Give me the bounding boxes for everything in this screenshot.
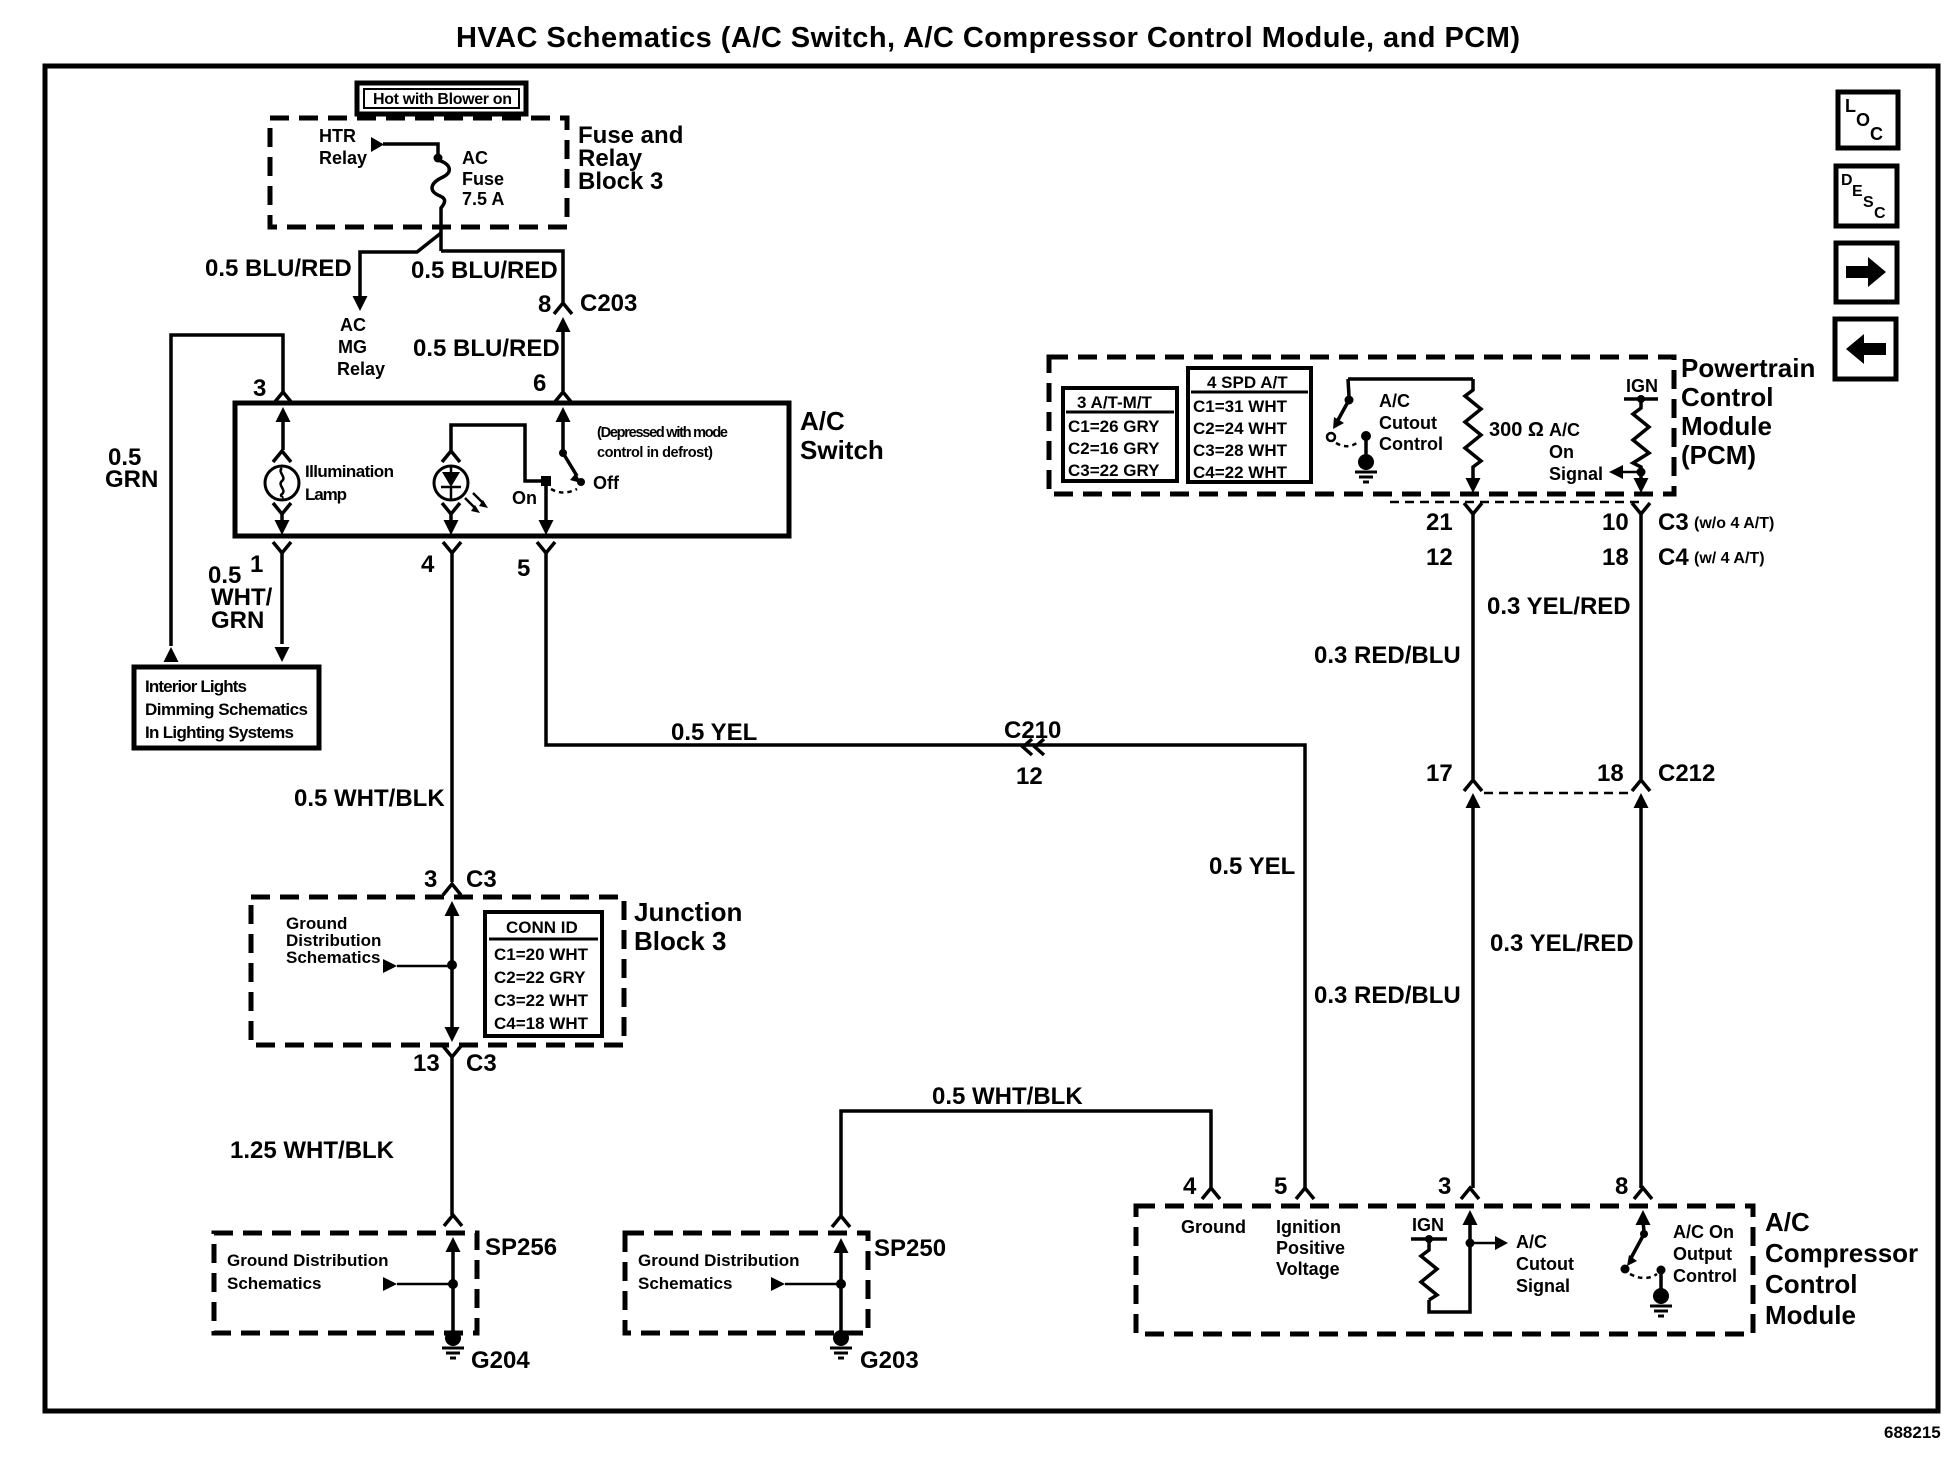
wire: 0.3 RED/BLU PCM to C212 xyxy=(1471,514,1475,779)
svg-text:L: L xyxy=(1845,96,1856,116)
SP250 internal wire xyxy=(834,1238,849,1332)
label: Ignition Positive Voltage xyxy=(1276,1217,1345,1279)
connector: pin 5 of A/C switch xyxy=(517,542,555,582)
connector: compressor module pin 3 xyxy=(1438,1173,1479,1200)
svg-text:A/C: A/C xyxy=(1516,1232,1547,1252)
svg-text:C212: C212 xyxy=(1658,760,1715,787)
svg-text:0.5 BLU/RED: 0.5 BLU/RED xyxy=(411,257,558,284)
svg-text:C2=22 GRY: C2=22 GRY xyxy=(494,968,586,987)
dashed travel arc On-Off xyxy=(551,489,577,493)
wire: fuse output below block xyxy=(439,228,443,251)
label: A/C Cutout Control xyxy=(1379,391,1443,454)
svg-text:On: On xyxy=(512,488,537,508)
svg-text:17: 17 xyxy=(1426,760,1453,787)
svg-text:0.5 BLU/RED: 0.5 BLU/RED xyxy=(205,255,352,282)
svg-text:7.5 A: 7.5 A xyxy=(462,189,504,209)
pin 3 internal wire xyxy=(1429,1210,1478,1312)
connector C212 right (pin 18) xyxy=(1597,760,1715,808)
svg-text:Block 3: Block 3 xyxy=(578,168,663,195)
svg-text:Illumination: Illumination xyxy=(305,462,394,481)
svg-text:C2=24 WHT: C2=24 WHT xyxy=(1193,419,1288,438)
svg-text:(Depressed with mode: (Depressed with mode xyxy=(597,425,728,441)
svg-text:Schematics: Schematics xyxy=(227,1274,322,1293)
svg-text:8: 8 xyxy=(538,291,551,318)
wire: 0.5 WHT/BLK down to junction block xyxy=(450,553,454,882)
pin 3 internal wire to lamp xyxy=(273,407,291,462)
arrow: A/C Cutout Signal xyxy=(1470,1236,1508,1250)
svg-text:C1=20 WHT: C1=20 WHT xyxy=(494,945,589,964)
svg-text:Block 3: Block 3 xyxy=(634,926,727,956)
svg-text:C3=22 GRY: C3=22 GRY xyxy=(1068,461,1160,480)
note: Depressed with mode control in defrost xyxy=(597,425,728,461)
relay label: HTR Relay xyxy=(319,126,367,168)
PCM dashed box xyxy=(1049,357,1674,494)
svg-text:Relay: Relay xyxy=(319,148,367,168)
svg-text:C4=22 WHT: C4=22 WHT xyxy=(1193,463,1288,482)
svg-text:A/C: A/C xyxy=(800,406,845,436)
svg-text:688215: 688215 xyxy=(1884,1423,1941,1442)
svg-text:0.3 YEL/RED: 0.3 YEL/RED xyxy=(1490,930,1634,957)
lamp: Illumination Lamp xyxy=(265,466,299,500)
label: A/C On Signal xyxy=(1549,420,1603,484)
connector: pin 3 of A/C switch xyxy=(253,375,292,403)
label: A/C On Output Control xyxy=(1673,1222,1737,1286)
connector: compressor module pin 8 xyxy=(1615,1173,1652,1200)
svg-text:A/C On: A/C On xyxy=(1673,1222,1734,1242)
connector: 13 C3 xyxy=(413,1046,497,1077)
svg-text:12: 12 xyxy=(1426,544,1453,571)
svg-text:Module: Module xyxy=(1765,1300,1856,1330)
wire: branch to AC MG Relay with down arrow xyxy=(353,233,442,311)
svg-text:AC: AC xyxy=(462,148,488,168)
A/C Switch box xyxy=(235,403,789,536)
svg-text:21: 21 xyxy=(1426,509,1453,536)
reference box: Interior Lights Dimming Schematics in Lighting Systems xyxy=(134,667,319,748)
wire: 1.25 WHT/BLK down to SP256 xyxy=(450,1057,454,1215)
svg-text:3 A/T-M/T: 3 A/T-M/T xyxy=(1077,393,1153,412)
svg-text:10: 10 xyxy=(1602,509,1629,536)
svg-text:18: 18 xyxy=(1602,544,1629,571)
Junction Block 3 dashed box xyxy=(251,897,624,1045)
wire: 0.5 GRN loop to interior lights xyxy=(164,335,284,662)
svg-text:Signal: Signal xyxy=(1516,1276,1570,1296)
svg-text:A/C: A/C xyxy=(1765,1207,1810,1237)
svg-text:Powertrain: Powertrain xyxy=(1681,353,1815,383)
table: 3 A/T-M/T connector ids xyxy=(1063,388,1177,481)
svg-text:C3=28 WHT: C3=28 WHT xyxy=(1193,441,1288,460)
pin 6 internal wire to switch pivot xyxy=(556,407,571,457)
svg-text:IGN: IGN xyxy=(1412,1215,1444,1235)
svg-text:8: 8 xyxy=(1615,1173,1628,1200)
svg-text:300 Ω: 300 Ω xyxy=(1489,419,1544,441)
A/C Compressor Control Module dashed box xyxy=(1136,1206,1753,1334)
svg-text:Off: Off xyxy=(593,473,620,493)
svg-text:On: On xyxy=(1549,442,1574,462)
svg-text:(PCM): (PCM) xyxy=(1681,440,1756,470)
svg-text:C3: C3 xyxy=(466,866,497,893)
svg-text:C1=26 GRY: C1=26 GRY xyxy=(1068,417,1160,436)
connector: pin 4 of A/C switch xyxy=(421,542,461,578)
svg-text:SP256: SP256 xyxy=(485,1234,557,1261)
svg-text:0.3 RED/BLU: 0.3 RED/BLU xyxy=(1314,982,1461,1009)
svg-text:Dimming Schematics: Dimming Schematics xyxy=(145,700,308,719)
LED indicator xyxy=(434,451,468,500)
svg-text:Switch: Switch xyxy=(800,435,884,465)
svg-text:Ground: Ground xyxy=(1181,1217,1246,1237)
svg-text:0.5 YEL: 0.5 YEL xyxy=(1209,853,1295,880)
svg-text:S: S xyxy=(1863,194,1874,211)
label: Fuse and Relay Block 3 xyxy=(578,122,683,195)
connector C203 pin 8 xyxy=(538,290,637,332)
svg-text:Interior Lights: Interior Lights xyxy=(145,677,247,696)
svg-text:3: 3 xyxy=(1438,1173,1451,1200)
ground G204 xyxy=(442,1330,530,1374)
ground G203 xyxy=(830,1330,919,1374)
svg-text:C203: C203 xyxy=(580,290,637,317)
svg-text:Control: Control xyxy=(1673,1266,1737,1286)
connector: PCM pin 10/18 xyxy=(1602,503,1650,571)
resistor 300 ohm xyxy=(1465,379,1481,493)
svg-text:IGN: IGN xyxy=(1626,376,1658,396)
svg-text:Relay: Relay xyxy=(337,359,385,379)
switch: A/C On Output Control xyxy=(1621,1210,1666,1289)
connector: compressor module pin 5 xyxy=(1274,1173,1314,1200)
svg-text:3: 3 xyxy=(424,866,437,893)
connector: pin 6 of A/C switch xyxy=(533,370,572,403)
label box: Hot with Blower on xyxy=(357,83,526,114)
svg-text:12: 12 xyxy=(1016,763,1043,790)
label: Illumination Lamp xyxy=(305,462,394,504)
svg-text:(w/ 4 A/T): (w/ 4 A/T) xyxy=(1694,550,1765,567)
svg-text:E: E xyxy=(1852,183,1863,200)
label: 0.5 GRN xyxy=(105,444,158,493)
connector: compressor module pin 4 xyxy=(1183,1173,1220,1200)
svg-text:Junction: Junction xyxy=(634,897,742,927)
splice SP250 xyxy=(832,1216,946,1262)
label: A/C Switch xyxy=(800,406,884,465)
label: Junction Block 3 xyxy=(634,897,742,956)
svg-text:Voltage: Voltage xyxy=(1276,1259,1340,1279)
wire: HTR Relay output with arrow xyxy=(371,137,443,163)
svg-text:0.5 WHT/BLK: 0.5 WHT/BLK xyxy=(932,1083,1083,1110)
svg-text:SP250: SP250 xyxy=(874,1235,946,1262)
wire: C203 to A/C switch pin 6 xyxy=(561,328,565,391)
svg-text:C2=16 GRY: C2=16 GRY xyxy=(1068,439,1160,458)
svg-text:GRN: GRN xyxy=(105,466,158,493)
IGN feed and resistor xyxy=(1624,376,1658,493)
svg-text:HTR: HTR xyxy=(319,126,356,146)
label: C4 (w/ 4 A/T) xyxy=(1658,544,1765,571)
label: AC Fuse 7.5 A xyxy=(462,148,504,209)
svg-text:C4: C4 xyxy=(1658,544,1689,571)
svg-text:Positive: Positive xyxy=(1276,1238,1345,1258)
SP250 ground distribution dashed box xyxy=(625,1233,868,1333)
connector: pin 1 of A/C switch xyxy=(250,542,291,578)
switch blade to Off contact xyxy=(563,453,620,493)
svg-text:D: D xyxy=(1841,172,1853,189)
wire: 0.3 RED/BLU C212 to compressor module pin 3 xyxy=(1471,804,1475,1188)
svg-text:(w/o 4 A/T): (w/o 4 A/T) xyxy=(1694,515,1774,532)
svg-text:0.5 WHT/BLK: 0.5 WHT/BLK xyxy=(294,785,445,812)
icon: DESC button xyxy=(1836,166,1897,226)
svg-text:5: 5 xyxy=(1274,1173,1287,1200)
svg-text:Signal: Signal xyxy=(1549,464,1603,484)
LED bottom terminal to box edge xyxy=(442,503,460,535)
svg-text:Schematics: Schematics xyxy=(286,948,381,967)
svg-text:In Lighting Systems: In Lighting Systems xyxy=(145,723,294,742)
connector C212 left (pin 17) xyxy=(1426,760,1482,808)
svg-text:1: 1 xyxy=(250,551,263,578)
svg-text:0.5 YEL: 0.5 YEL xyxy=(671,719,757,746)
label: Powertrain Control Module (PCM) xyxy=(1681,353,1815,470)
wire: LED top to On contact bracket xyxy=(451,425,541,481)
svg-text:Output: Output xyxy=(1673,1244,1732,1264)
svg-text:MG: MG xyxy=(338,337,367,357)
svg-text:Fuse: Fuse xyxy=(462,169,504,189)
On contact square xyxy=(512,476,551,508)
svg-text:Control: Control xyxy=(1765,1269,1857,1299)
ground (A/C cutout control) xyxy=(1355,454,1377,482)
svg-text:3: 3 xyxy=(253,375,266,402)
wire: 0.3 YEL/RED PCM to C212 xyxy=(1639,514,1643,779)
svg-text:Ground Distribution: Ground Distribution xyxy=(638,1251,799,1270)
ground (A/C on output control) xyxy=(1650,1288,1672,1316)
svg-text:C: C xyxy=(1874,205,1886,222)
junction block internal wire xyxy=(445,901,460,1042)
svg-text:C3: C3 xyxy=(466,1050,497,1077)
wire: 0.5 YEL from A/C switch pin 5 to compressor module pin 5 xyxy=(546,553,1305,1188)
svg-text:1.25 WHT/BLK: 1.25 WHT/BLK xyxy=(230,1137,395,1164)
svg-text:6: 6 xyxy=(533,370,546,397)
svg-text:5: 5 xyxy=(517,555,530,582)
svg-text:Schematics: Schematics xyxy=(638,1274,733,1293)
connector: PCM pin 21/12 xyxy=(1426,503,1482,571)
SP256 ground distribution dashed box xyxy=(214,1233,477,1333)
svg-text:G203: G203 xyxy=(860,1347,919,1374)
label: A/C Compressor Control Module xyxy=(1765,1207,1918,1330)
table: 4 SPD A/T connector ids xyxy=(1188,368,1311,482)
svg-text:Hot with Blower on: Hot with Blower on xyxy=(373,91,512,108)
svg-text:AC: AC xyxy=(340,315,366,335)
CONN ID table xyxy=(485,912,602,1036)
svg-text:C3=22 WHT: C3=22 WHT xyxy=(494,991,589,1010)
icon: LOC button xyxy=(1838,92,1898,148)
dashed connector line C212 xyxy=(1484,792,1630,795)
wire: 0.3 YEL/RED C212 to compressor module pin 8 xyxy=(1639,804,1643,1188)
reference: Ground Distribution Schematics (junction block) xyxy=(286,914,452,973)
svg-text:G204: G204 xyxy=(471,1347,530,1374)
icon: back arrow button xyxy=(1835,319,1896,379)
wire: fuse to connector C203 xyxy=(441,251,563,302)
svg-text:control in defrost): control in defrost) xyxy=(597,445,713,461)
wire: 0.5 WHT/BLK from SP250 to compressor module pin 4 xyxy=(841,1111,1211,1216)
SP256 internal wire xyxy=(446,1237,461,1332)
svg-text:0.3 YEL/RED: 0.3 YEL/RED xyxy=(1487,593,1631,620)
svg-text:4 SPD A/T: 4 SPD A/T xyxy=(1207,373,1288,392)
svg-text:Module: Module xyxy=(1681,411,1772,441)
svg-text:Ground Distribution: Ground Distribution xyxy=(227,1251,388,1270)
lamp bottom terminal to box edge xyxy=(273,503,291,535)
svg-text:Cutout: Cutout xyxy=(1516,1254,1574,1274)
connector C210 (pin 12) xyxy=(1004,717,1061,790)
svg-text:C1=31 WHT: C1=31 WHT xyxy=(1193,397,1288,416)
svg-text:Control: Control xyxy=(1379,434,1443,454)
svg-text:CONN ID: CONN ID xyxy=(506,918,578,937)
fuse: AC Fuse 7.5 A (squiggle symbol) xyxy=(432,160,449,228)
splice SP256 xyxy=(444,1215,557,1261)
svg-text:O: O xyxy=(1856,110,1870,130)
svg-text:HVAC Schematics (A/C Switch, A: HVAC Schematics (A/C Switch, A/C Compres… xyxy=(456,22,1520,54)
fuse block: Fuse and Relay Block 3 (dashed box) xyxy=(270,118,567,227)
svg-text:13: 13 xyxy=(413,1050,440,1077)
connector line C3/C4 (dashed) xyxy=(1390,501,1641,504)
label: A/C Cutout Signal xyxy=(1516,1232,1574,1296)
wire: 0.5 WHT/GRN to interior lights box xyxy=(275,553,290,662)
svg-text:0.5 BLU/RED: 0.5 BLU/RED xyxy=(413,335,560,362)
svg-text:Compressor: Compressor xyxy=(1765,1238,1918,1268)
svg-text:C3: C3 xyxy=(1658,509,1689,536)
svg-text:4: 4 xyxy=(1183,1173,1197,1200)
label: 0.5 WHT/GRN xyxy=(208,562,273,634)
svg-text:GRN: GRN xyxy=(211,607,264,634)
icon: next arrow button xyxy=(1836,243,1897,302)
svg-text:Lamp: Lamp xyxy=(305,485,347,504)
label: AC MG Relay xyxy=(337,315,385,379)
label: C3 (w/o 4 A/T) xyxy=(1658,509,1774,536)
svg-text:A/C: A/C xyxy=(1379,391,1410,411)
svg-text:Control: Control xyxy=(1681,382,1773,412)
LED emission arrows xyxy=(465,493,488,513)
svg-text:Cutout: Cutout xyxy=(1379,413,1437,433)
IGN feed and resistor (compressor module) xyxy=(1411,1215,1447,1300)
svg-text:C4=18 WHT: C4=18 WHT xyxy=(494,1014,589,1033)
switch: A/C Cutout Control xyxy=(1327,379,1473,454)
svg-text:4: 4 xyxy=(421,551,435,578)
svg-text:Ignition: Ignition xyxy=(1276,1217,1341,1237)
svg-text:0.3 RED/BLU: 0.3 RED/BLU xyxy=(1314,642,1461,669)
svg-text:18: 18 xyxy=(1597,760,1624,787)
svg-text:C: C xyxy=(1870,124,1883,144)
arrow: A/C On Signal tap xyxy=(1609,465,1641,479)
wire: On contact down to pin 5 xyxy=(539,486,554,535)
svg-text:A/C: A/C xyxy=(1549,420,1580,440)
connector: 3 C3 xyxy=(424,866,497,895)
